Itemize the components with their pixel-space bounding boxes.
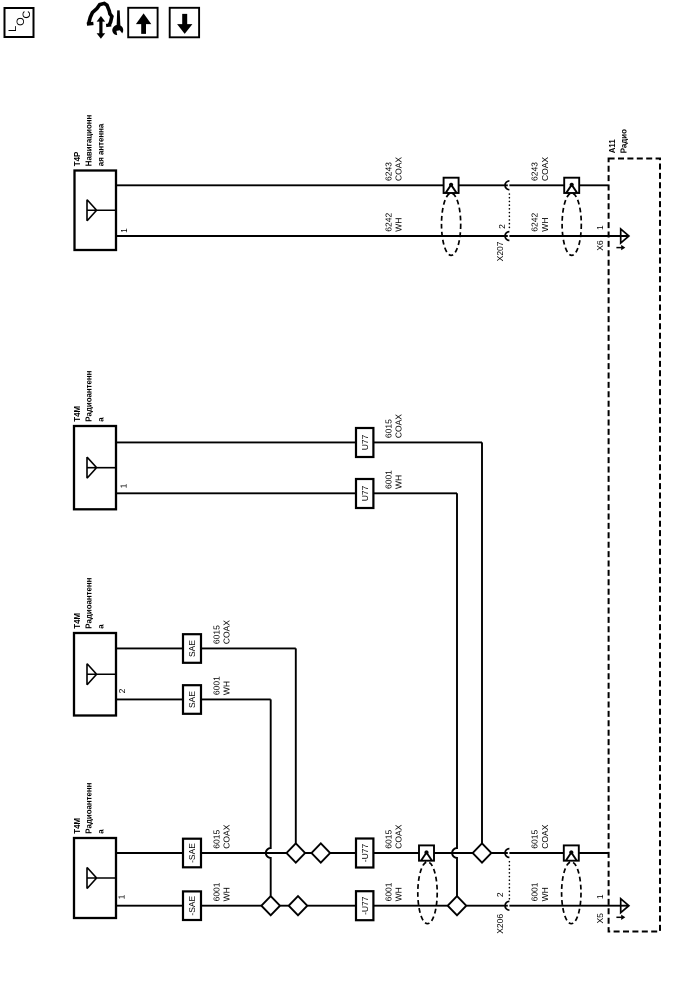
connector symbol C3 shield (bottom left) (square with antenna mark) <box>419 845 434 860</box>
hyperlink box LOC <box>5 8 34 37</box>
svg-text:6001: 6001 <box>212 882 222 901</box>
component T4M-4 box <box>74 838 116 918</box>
svg-text:Радиоантенн: Радиоантенн <box>85 370 94 421</box>
svg-text:SAE: SAE <box>187 640 197 657</box>
antenna symbol of T4P <box>87 200 116 221</box>
svg-text:Радио: Радио <box>620 129 629 153</box>
connector boundary ellipse E3 (bottom left) <box>418 862 437 924</box>
wire 6243 COAX a <box>116 184 508 186</box>
svg-text:2: 2 <box>497 224 507 229</box>
connector boundary ellipse E1 (left) <box>442 193 461 255</box>
svg-text:U77: U77 <box>360 485 370 501</box>
navigation arrow icon (hand-drawn outline with double arrow) <box>87 3 112 25</box>
svg-text:T4M: T4M <box>73 405 82 421</box>
svg-text:C: C <box>21 11 33 19</box>
svg-text:6015: 6015 <box>212 625 222 644</box>
component T4M-2 box <box>74 426 116 509</box>
svg-text:COAX: COAX <box>222 620 232 644</box>
button up-arrow box <box>128 8 157 38</box>
connector divider dotted line X206 <box>508 862 510 901</box>
component T4P box <box>75 171 117 251</box>
svg-text:2: 2 <box>117 688 127 693</box>
svg-text:2: 2 <box>495 892 505 897</box>
svg-text:6001: 6001 <box>212 676 222 695</box>
inline connector U77 wh box <box>356 479 373 508</box>
splice S2 on coax <box>312 843 331 862</box>
connector symbol C2 shield (right) (square with antenna mark) <box>564 178 579 193</box>
svg-text:COAX: COAX <box>540 157 550 181</box>
X6 direction arrow <box>616 247 621 249</box>
inline connector SAE coax box <box>183 634 201 663</box>
connector half X206 wh <box>505 901 509 910</box>
svg-text:WH: WH <box>540 218 550 232</box>
splice S6 on coax <box>473 843 492 862</box>
wire 6001 WH bot b <box>509 905 629 907</box>
splice S1 on coax <box>287 843 306 862</box>
svg-text:T4M: T4M <box>73 612 82 628</box>
wire 6015 COAX t4m2 <box>116 441 482 443</box>
wire 6015 COAX drop <box>481 442 483 843</box>
inline connector -SAE coax box <box>183 839 201 868</box>
svg-text:1: 1 <box>595 225 605 230</box>
button down-arrow box <box>170 8 199 38</box>
svg-text:а: а <box>97 829 106 834</box>
svg-text:X5: X5 <box>595 913 605 924</box>
svg-text:-SAE: -SAE <box>187 895 197 915</box>
X6 input triangle <box>621 229 629 243</box>
svg-text:1: 1 <box>119 483 129 488</box>
connector half X207 wh <box>505 232 509 241</box>
X5 input triangle <box>621 899 629 913</box>
svg-text:X206: X206 <box>495 914 505 934</box>
svg-text:-U77: -U77 <box>360 844 370 863</box>
svg-text:COAX: COAX <box>222 824 232 848</box>
connector boundary ellipse E4 (bottom right) <box>562 862 581 924</box>
svg-text:6243: 6243 <box>530 162 540 181</box>
inline connector SAE wh box <box>183 685 201 714</box>
svg-text:COAX: COAX <box>394 824 404 848</box>
svg-text:6001: 6001 <box>530 882 540 901</box>
svg-text:X207: X207 <box>495 241 505 261</box>
svg-text:WH: WH <box>222 887 232 901</box>
wire 6001 WH vertical drop with hop <box>452 493 457 896</box>
wire 6015 COAX drop2 <box>295 648 297 843</box>
connector symbol C1 shield (left) (square with antenna mark) <box>444 178 459 193</box>
wire 6001 WH t4m3 <box>116 698 271 700</box>
svg-text:6001: 6001 <box>384 470 394 489</box>
component T4M-3 box <box>74 633 116 716</box>
antenna symbol of T4M-2 <box>87 457 116 478</box>
svg-text:X6: X6 <box>595 240 605 251</box>
svg-text:а: а <box>97 624 106 629</box>
wire 6015 COAX t4m3 <box>116 647 296 649</box>
splice S3 on wh <box>261 896 280 915</box>
svg-text:COAX: COAX <box>394 157 404 181</box>
connector symbol C4 shield (bottom right) (square with antenna mark) <box>564 845 579 860</box>
svg-text:A11: A11 <box>608 139 617 154</box>
svg-text:6242: 6242 <box>384 213 394 232</box>
svg-text:Радиоантенн: Радиоантенн <box>85 577 94 628</box>
wire 6015 COAX bot a <box>116 852 508 854</box>
svg-text:-SAE: -SAE <box>187 843 197 863</box>
inline connector -U77 wh box <box>356 891 373 920</box>
svg-text:-U77: -U77 <box>360 896 370 915</box>
svg-text:6015: 6015 <box>384 419 394 438</box>
wire 6242 WH a <box>116 235 508 237</box>
svg-text:6015: 6015 <box>384 830 394 849</box>
svg-text:WH: WH <box>394 887 404 901</box>
svg-text:WH: WH <box>394 475 404 489</box>
svg-text:U77: U77 <box>360 434 370 450</box>
connector half X207 coax <box>505 181 509 190</box>
wire 6001 WH vertical drop 2 with hop <box>266 699 271 896</box>
svg-text:6015: 6015 <box>530 830 540 849</box>
svg-text:6015: 6015 <box>212 830 222 849</box>
svg-text:1: 1 <box>117 894 127 899</box>
svg-text:T4P: T4P <box>73 152 82 166</box>
svg-text:COAX: COAX <box>394 414 404 438</box>
inline connector -U77 coax box <box>356 839 373 868</box>
wire 6015 COAX bot b <box>509 852 608 854</box>
svg-text:WH: WH <box>394 218 404 232</box>
connector half X206 coax <box>505 849 509 858</box>
connector divider dotted line X207 <box>508 194 510 230</box>
svg-text:6243: 6243 <box>384 162 394 181</box>
splice S4 on wh <box>289 896 308 915</box>
wire 6242 WH b <box>509 235 629 237</box>
svg-text:1: 1 <box>595 894 605 899</box>
X5 direction arrow <box>616 916 621 918</box>
connector boundary ellipse E2 (right) <box>562 193 581 255</box>
svg-text:SAE: SAE <box>187 691 197 708</box>
svg-text:1: 1 <box>119 228 129 233</box>
inline connector U77 coax box <box>356 428 373 457</box>
splice S5 on wh <box>448 896 467 915</box>
svg-text:ая антенна: ая антенна <box>97 123 106 166</box>
ECU A11 Radio dashed box <box>609 159 660 932</box>
svg-text:6242: 6242 <box>530 213 540 232</box>
svg-text:а: а <box>97 417 106 422</box>
svg-text:WH: WH <box>222 681 232 695</box>
wire 6243 COAX b <box>509 184 608 186</box>
svg-text:Навигационн: Навигационн <box>85 114 94 166</box>
antenna symbol of T4M-4 <box>87 867 116 888</box>
wire 6001 WH bot a <box>116 905 508 907</box>
svg-text:COAX: COAX <box>540 824 550 848</box>
wire 6001 WH t4m2 <box>116 492 457 494</box>
inline connector -SAE wh box <box>183 891 201 920</box>
svg-text:6001: 6001 <box>384 882 394 901</box>
svg-text:Радиоантенн: Радиоантенн <box>85 782 94 833</box>
antenna symbol of T4M-3 <box>87 664 116 685</box>
svg-text:T4M: T4M <box>73 817 82 833</box>
svg-text:WH: WH <box>540 887 550 901</box>
